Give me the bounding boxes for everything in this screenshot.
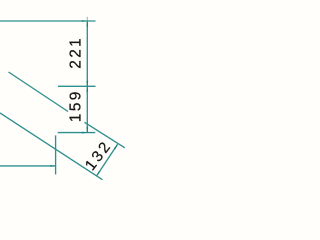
dimension line horizontal (H) <box>0 165 56 167</box>
dimension line 132 (aligned) <box>97 144 118 176</box>
extension line top (A) <box>0 20 96 22</box>
dimension line vertical (B) <box>86 21 88 133</box>
diagonal rail 1 lower segment <box>85 122 125 148</box>
arrowhead right on A <box>82 20 88 22</box>
diagonal rail 1 upper segment <box>9 72 69 112</box>
arrowhead down (dim 221 bottom) <box>86 81 88 87</box>
arrowhead right on H <box>50 165 56 167</box>
arrowhead down at bottom of B <box>86 127 88 133</box>
extension line middle (C) <box>58 85 96 87</box>
arrowhead up (dim 159 top) <box>86 86 88 92</box>
arrowhead lower-left of dim 132 <box>97 171 101 176</box>
extension line vertical (G) <box>55 135 57 174</box>
arrowhead up at top of B <box>86 21 88 27</box>
extension tick above A <box>86 17 88 21</box>
arrowhead upper-right of dim 132 <box>114 144 118 149</box>
extension line bottom (D) <box>58 132 96 134</box>
svg-text:159: 159 <box>67 89 84 122</box>
svg-text:221: 221 <box>68 36 85 69</box>
arrowhead right on D <box>82 132 88 134</box>
diagonal rail 2 <box>0 113 102 180</box>
